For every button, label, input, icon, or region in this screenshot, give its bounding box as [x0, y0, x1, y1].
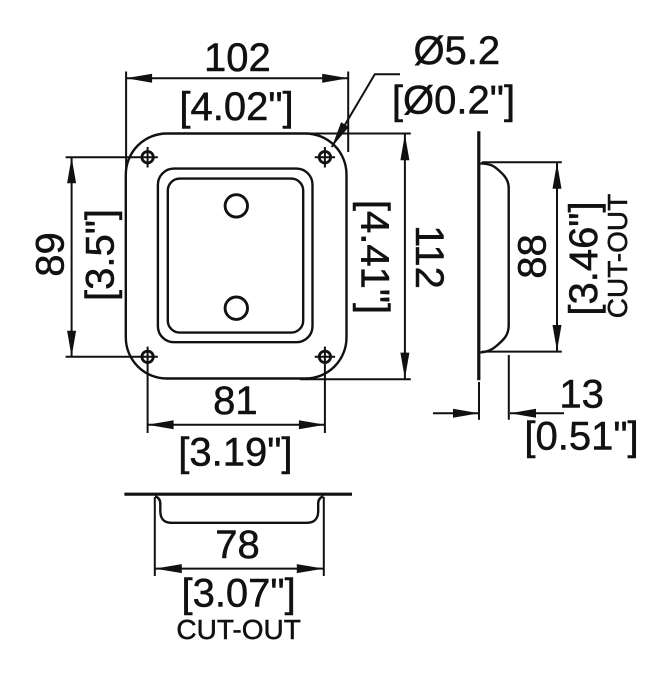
dim 78 extension left [154, 497, 156, 576]
svg-text:81: 81 [213, 379, 258, 423]
dim 81 extension left [147, 347, 149, 433]
side view flange edge [477, 131, 480, 380]
dim 112 extension top [300, 133, 411, 135]
arrow 112 top [400, 134, 409, 160]
dim 112 extension bottom [300, 378, 411, 380]
dim 13 extension right [508, 355, 510, 420]
hole bottom-left [142, 351, 153, 362]
dim 78 line [155, 568, 324, 570]
dish inner rounded rect [168, 179, 303, 333]
dim 112 line [404, 134, 406, 378]
svg-text:[3.19"]: [3.19"] [178, 431, 292, 475]
dim 89 line [71, 157, 73, 357]
svg-text:89: 89 [28, 232, 72, 277]
svg-text:88: 88 [511, 234, 555, 279]
hole top-left [142, 152, 153, 163]
front view flange outline [126, 134, 347, 379]
dim 13 tail right [510, 412, 564, 414]
arrow 13 right [510, 409, 536, 418]
dim 13 tail left [433, 412, 479, 414]
arrow 13 left [453, 409, 479, 418]
dim 89 extension top [66, 156, 158, 158]
arrow 89 bottom [67, 331, 76, 357]
dim 81 line [148, 424, 325, 426]
dim 88 extension top [482, 161, 562, 163]
dim 78 extension right [323, 497, 325, 576]
dim 89 extension bottom [66, 356, 158, 358]
hole top-right [319, 152, 330, 163]
arrow 78 left [155, 564, 182, 573]
arrow 89 top [67, 157, 76, 183]
arrow 88 top [553, 163, 562, 189]
center hole lower [225, 297, 247, 319]
svg-text:78: 78 [215, 523, 260, 567]
dim 102 line [126, 77, 348, 79]
dim 102 extension left [125, 72, 127, 171]
svg-text:[0.51"]: [0.51"] [524, 414, 638, 458]
arrow 81 left [148, 420, 174, 429]
dim 81 extension right [324, 347, 326, 433]
svg-text:[3.07"]: [3.07"] [181, 572, 295, 616]
side view dish profile [481, 163, 509, 352]
arrow 102 left [126, 74, 152, 83]
svg-text:[4.02"]: [4.02"] [179, 85, 293, 129]
leader line hole dia [332, 74, 400, 147]
arrow 102 right [322, 74, 348, 83]
svg-text:CUT-OUT: CUT-OUT [176, 614, 300, 645]
arrow 81 right [299, 420, 325, 429]
bottom view dish profile [155, 496, 324, 523]
svg-text:[3.46"]: [3.46"] [562, 201, 606, 315]
svg-text:112: 112 [407, 225, 451, 289]
svg-text:Ø5.2: Ø5.2 [413, 29, 500, 73]
svg-text:CUT-OUT: CUT-OUT [602, 194, 633, 318]
dim 88 extension bottom [482, 351, 562, 353]
svg-text:13: 13 [559, 372, 604, 416]
arrow leader [332, 122, 349, 147]
svg-text:[3.5"]: [3.5"] [78, 209, 122, 301]
svg-text:[4.41"]: [4.41"] [353, 200, 397, 314]
arrow 88 bottom [553, 325, 562, 351]
dim 13 extension left [478, 382, 480, 420]
arrow 78 right [297, 564, 324, 573]
center hole upper [225, 195, 247, 217]
dim 102 extension right [347, 72, 349, 153]
bottom view flange edge [124, 493, 352, 496]
arrow 112 bottom [400, 353, 409, 379]
hole bottom-right [319, 351, 330, 362]
svg-text:[Ø0.2"]: [Ø0.2"] [392, 78, 515, 122]
svg-text:102: 102 [204, 36, 271, 80]
dish outer rounded rect [158, 169, 313, 343]
dim 88 line [556, 163, 558, 351]
